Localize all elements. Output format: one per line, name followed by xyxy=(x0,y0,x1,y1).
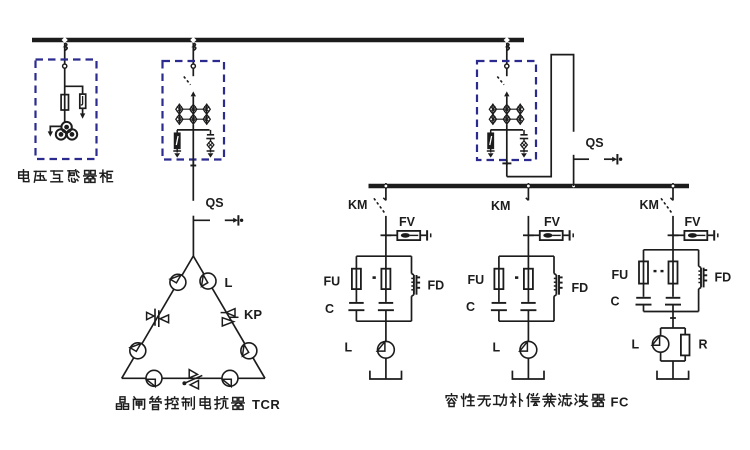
fuse FU branch3 left xyxy=(643,250,645,297)
svg-text:QS: QS xyxy=(206,196,224,210)
wire: branch1 stem xyxy=(385,216,387,256)
surge arrester FV branch3 xyxy=(673,234,684,236)
svg-text:C: C xyxy=(325,302,334,316)
wire: branch3 filter header xyxy=(644,249,699,251)
surge arrester FV branch2 xyxy=(528,234,539,236)
discharge coil FD branch2 xyxy=(553,256,555,273)
wire: branch1 reactor lead xyxy=(385,321,387,342)
reactor coil (delta bottom right) xyxy=(222,370,238,386)
transformer winding array T1 xyxy=(178,104,180,125)
arrow: T2 up-arrow contact xyxy=(504,91,509,96)
svg-text:FU: FU xyxy=(468,273,485,287)
switch blade (open, dashed) T2 xyxy=(497,77,504,85)
reactor coil (delta left upper) xyxy=(170,274,186,290)
wire: branch1 filter footer xyxy=(356,320,411,322)
wire: stem below T1 with tick xyxy=(192,160,194,201)
fuse FU branch1 left xyxy=(355,256,357,302)
arrow: T1 up-arrow contact xyxy=(191,91,196,96)
discharge coil FD branch3 xyxy=(698,250,700,266)
wire: branch2 filter footer xyxy=(499,320,554,322)
fuse FU branch3 mid xyxy=(672,250,674,297)
wire: delta left side xyxy=(122,256,194,378)
reactor coil L (delta right upper) xyxy=(200,273,216,289)
discharge coil FD branch1 xyxy=(411,256,413,273)
svg-text:FC: FC xyxy=(611,395,629,410)
wire: branch2 tail xyxy=(527,358,529,379)
wire: branch3 stem xyxy=(672,216,674,250)
phase link bracket branch1 xyxy=(370,371,402,379)
fuse FU1 (PT primary fuse) xyxy=(61,95,68,110)
wire: delta right side xyxy=(193,256,265,378)
svg-text:C: C xyxy=(466,300,475,314)
capacitor C branch2 col498 xyxy=(492,302,507,304)
caption: 晶闸管控制电抗器 (TCR) xyxy=(117,397,129,410)
switch blade (open, dashed) T1 xyxy=(184,77,191,85)
fuse FU branch1 mid xyxy=(385,256,387,302)
disconnector QS (right, open) xyxy=(573,155,575,186)
wire: branch3 LR header xyxy=(661,327,686,329)
capacitor C branch1 col385 xyxy=(379,302,394,304)
resistor R branch3 xyxy=(684,328,686,335)
wire: branch2 filter header xyxy=(499,255,554,257)
capacitor C branch1 col356 xyxy=(349,302,364,304)
wire: main incoming bus (top) xyxy=(32,38,524,43)
svg-text:QS: QS xyxy=(586,136,604,150)
junction dots between fuses branch3 xyxy=(654,270,657,272)
thyristor valve pair (delta bottom) xyxy=(189,370,197,378)
svg-text:L: L xyxy=(345,341,353,355)
phase link bracket branch2 xyxy=(512,371,544,379)
cabinet box: voltage transformer cabinet (dashed) xyxy=(36,60,97,160)
cabinet box: FC step transformer (dashed) xyxy=(477,61,536,160)
thyristor valve pair (delta left) xyxy=(147,312,154,319)
svg-text:C: C xyxy=(611,295,620,309)
fuse FU2 (right fuse) xyxy=(80,94,86,108)
wire: T2 lower header xyxy=(491,129,524,131)
wire: branch3 filter footer xyxy=(644,311,699,313)
reactor coil L branch3 xyxy=(660,328,662,337)
svg-text:KM: KM xyxy=(640,198,659,212)
wire: T1 lower header xyxy=(177,129,210,131)
contactor KM branch2 (open) xyxy=(527,188,529,200)
transformer winding array T2 xyxy=(492,104,494,125)
reactor coil L branch2 xyxy=(520,341,537,358)
wire: branch1 tail xyxy=(385,358,387,379)
reactor coil (delta bottom left) xyxy=(146,370,162,386)
thyristor valve pair KP (delta right) xyxy=(226,309,235,317)
svg-text:FU: FU xyxy=(324,275,341,289)
wire: branch1 filter header xyxy=(356,255,411,257)
surge arrester FV branch1 xyxy=(386,234,397,236)
reactor coil L branch1 xyxy=(378,341,395,358)
svg-text:L: L xyxy=(225,275,233,290)
wire: feeder jog up-and-over xyxy=(507,55,574,177)
surge arrester FV in T2 xyxy=(490,130,492,133)
wire: T2 outlet with tick xyxy=(506,160,508,177)
svg-text:FV: FV xyxy=(399,215,416,229)
svg-text:FV: FV xyxy=(544,215,561,229)
caption: 电压互感器柜 (PT cabinet) xyxy=(19,170,29,182)
contactor KM branch1 (open) xyxy=(385,188,387,200)
voltage transformer PT (three windings) xyxy=(61,122,71,132)
capacitor + gap element in T2 xyxy=(523,130,525,135)
disconnector QS (middle, open) xyxy=(192,216,194,257)
svg-text:KM: KM xyxy=(348,198,367,212)
arrow: right branch terminal xyxy=(80,113,85,118)
svg-text:TCR: TCR xyxy=(252,397,280,412)
arrow: PT secondary terminal xyxy=(48,131,53,136)
reactor coil (delta left lower) xyxy=(130,343,146,359)
wire: T1 outgoing stem xyxy=(192,130,194,165)
node: box entry contact xyxy=(63,64,67,68)
wire: branch3 split lead xyxy=(672,312,674,329)
svg-text:R: R xyxy=(699,338,708,352)
capacitor + gap element in T1 xyxy=(210,130,212,135)
wire: branch2 reactor lead xyxy=(527,321,529,342)
wire: branch2 stem xyxy=(527,216,529,256)
cabinet box: TCR step transformer (dashed) xyxy=(163,61,225,160)
wire: filter bus (lower right) xyxy=(369,184,690,189)
wire: right fuse tail xyxy=(82,108,84,113)
surge arrester FV in T1 xyxy=(176,130,178,133)
svg-text:FV: FV xyxy=(685,215,702,229)
reactor coil (delta right lower) xyxy=(241,343,257,359)
capacitor C branch2 col528 xyxy=(521,302,536,304)
caption: 容性无功补偿兼滤波器 (FC) xyxy=(446,394,457,407)
svg-text:FD: FD xyxy=(428,279,445,293)
svg-text:FD: FD xyxy=(715,271,732,285)
capacitor C branch3 col643 xyxy=(636,297,651,299)
svg-text:KP: KP xyxy=(244,307,262,322)
node: T1 entry contact xyxy=(191,64,195,68)
junction dot between fuses branch1 xyxy=(373,276,376,279)
svg-text:L: L xyxy=(632,338,640,352)
fuse FU branch2 left xyxy=(498,256,500,302)
svg-text:FU: FU xyxy=(612,268,629,282)
wire: drop from top bus 3 xyxy=(506,38,508,64)
wire: drop from top bus 1 xyxy=(64,38,66,64)
contactor KM branch3 (open) xyxy=(672,188,674,200)
svg-text:FD: FD xyxy=(572,281,589,295)
wire: PT secondary lead xyxy=(50,126,61,131)
wire: branch to second fuse xyxy=(65,86,83,94)
wire: delta bottom side xyxy=(122,377,265,379)
phase link bracket branch3 xyxy=(657,371,689,379)
capacitor C branch3 col673 xyxy=(666,297,681,299)
wire: drop from top bus 2 xyxy=(192,38,194,64)
junction dot between fuses branch2 xyxy=(515,276,518,279)
wire: branch3 LR footer xyxy=(661,360,686,362)
wire: PT cabinet main stem xyxy=(64,68,66,122)
node: T2 entry contact xyxy=(505,64,509,68)
wire: T2 outgoing stem xyxy=(506,130,508,165)
svg-text:KM: KM xyxy=(491,199,510,213)
fuse FU branch2 mid xyxy=(527,256,529,302)
svg-text:L: L xyxy=(493,341,501,355)
